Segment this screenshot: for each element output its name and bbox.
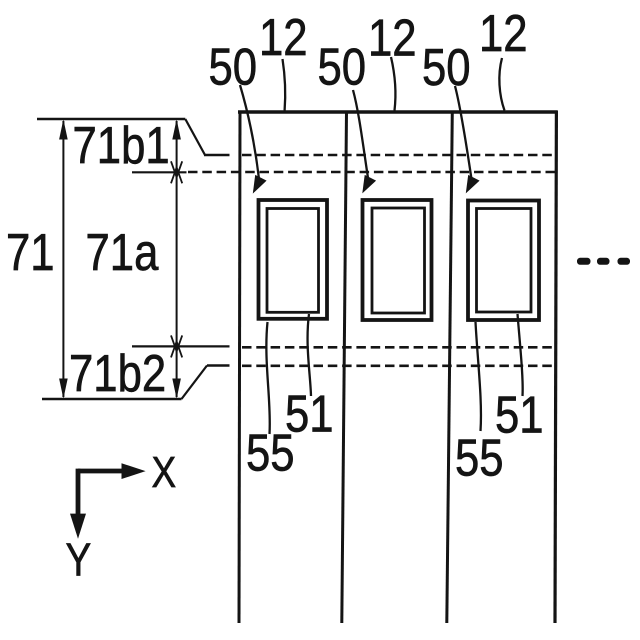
lower dashed boundary line (71b2) solid lead-in: [207, 364, 230, 366]
lower dashed boundary line across strips: [242, 364, 556, 367]
arrowhead bottom of dimension 71b2: [172, 379, 181, 399]
arrowhead top of dimension 71: [59, 119, 68, 139]
svg-text:55: 55: [455, 430, 504, 487]
axis X line: [78, 469, 126, 474]
extension line at boundary 71b1/71a: [132, 171, 187, 173]
strip 12 #3 right border: [555, 111, 556, 623]
opening 51 inner rectangle, strip 2: [372, 208, 425, 313]
svg-text:12: 12: [368, 10, 417, 67]
opening 51 outer rectangle, strip 2: [363, 200, 432, 320]
svg-text:71: 71: [6, 225, 55, 282]
leader line from label 55 #3 to outer rectangle: [476, 322, 481, 431]
strip 12 #2/#3 shared border: [447, 111, 453, 623]
leader line from label 55 #1 to outer rectangle: [266, 322, 269, 434]
axis Y arrowhead: [70, 514, 86, 539]
coordinate axis: [78, 469, 126, 518]
strip top edge (common line of members 12): [238, 110, 558, 113]
crossed arrowheads at 71a/71b2 boundary: [171, 335, 182, 357]
svg-text:71b1: 71b1: [73, 118, 170, 175]
dimension line 71b1/71a/71b2 (vertical): [176, 121, 178, 397]
opening 51 outer rectangle, strip 3: [468, 201, 539, 321]
ellipsis dash 2: [597, 258, 610, 265]
leader line from label 50 #3: [455, 86, 472, 179]
opening 51 inner rectangle, strip 3: [477, 209, 532, 313]
third dashed boundary line (bottom of 71a): [242, 346, 556, 349]
dimension line 71 (vertical): [62, 121, 64, 397]
strip 12 #1 left border: [239, 111, 240, 623]
arrowhead top of dimension 71b1: [172, 119, 181, 139]
svg-text:X: X: [152, 447, 177, 497]
arrowhead of leader 50 #3: [466, 175, 480, 194]
axis X arrowhead: [122, 463, 146, 479]
svg-text:50: 50: [318, 39, 367, 96]
upper dashed boundary line (region 71b1 lower limit) solid lead-in: [204, 154, 230, 156]
ellipsis dash 1: [577, 258, 591, 265]
leader line from label 51 #3 to inner rectangle: [518, 314, 523, 396]
arrowhead of leader 50 #1: [253, 175, 267, 194]
svg-text:55: 55: [246, 425, 295, 482]
crossed arrowheads at 71b1/71a boundary: [171, 161, 182, 183]
ellipsis dash 3: [618, 258, 631, 265]
svg-text:12: 12: [479, 6, 528, 63]
second dashed boundary line (top of 71a): [188, 171, 556, 174]
opening 51 outer rectangle, strip 1: [259, 200, 328, 319]
svg-text:12: 12: [259, 10, 308, 67]
svg-text:Y: Y: [66, 534, 92, 585]
leader line from label 12 #1: [283, 59, 286, 111]
opening 51 inner rectangle, strip 1: [267, 209, 319, 313]
offset diagonal from top extension line to upper dashed line: [185, 119, 205, 155]
leader line from label 12 #3: [499, 58, 504, 111]
svg-text:50: 50: [209, 39, 258, 96]
axis Y line: [76, 469, 81, 518]
strip 12 #1/#2 shared border: [342, 111, 347, 623]
arrowhead bottom of dimension 71: [59, 379, 68, 399]
arrowhead of leader 50 #2: [362, 175, 376, 194]
svg-text:71b2: 71b2: [69, 346, 166, 403]
bottom extension line of dimension 71 / 71b2: [42, 398, 182, 400]
top extension line of dimension 71 / 71b1: [37, 118, 185, 120]
offset diagonal from bottom extension line to lower dashed line: [182, 366, 208, 400]
svg-text:71a: 71a: [86, 225, 159, 282]
svg-text:50: 50: [422, 40, 471, 97]
extension line at boundary 71a/71b2: [132, 345, 230, 347]
leader line from label 50 #2: [353, 90, 368, 178]
leader line from label 50 #1: [240, 85, 259, 179]
leader line from label 12 #2: [391, 57, 395, 111]
upper dashed boundary line across strips: [242, 154, 556, 157]
leader line from label 51 #1 to inner rectangle: [308, 314, 311, 396]
